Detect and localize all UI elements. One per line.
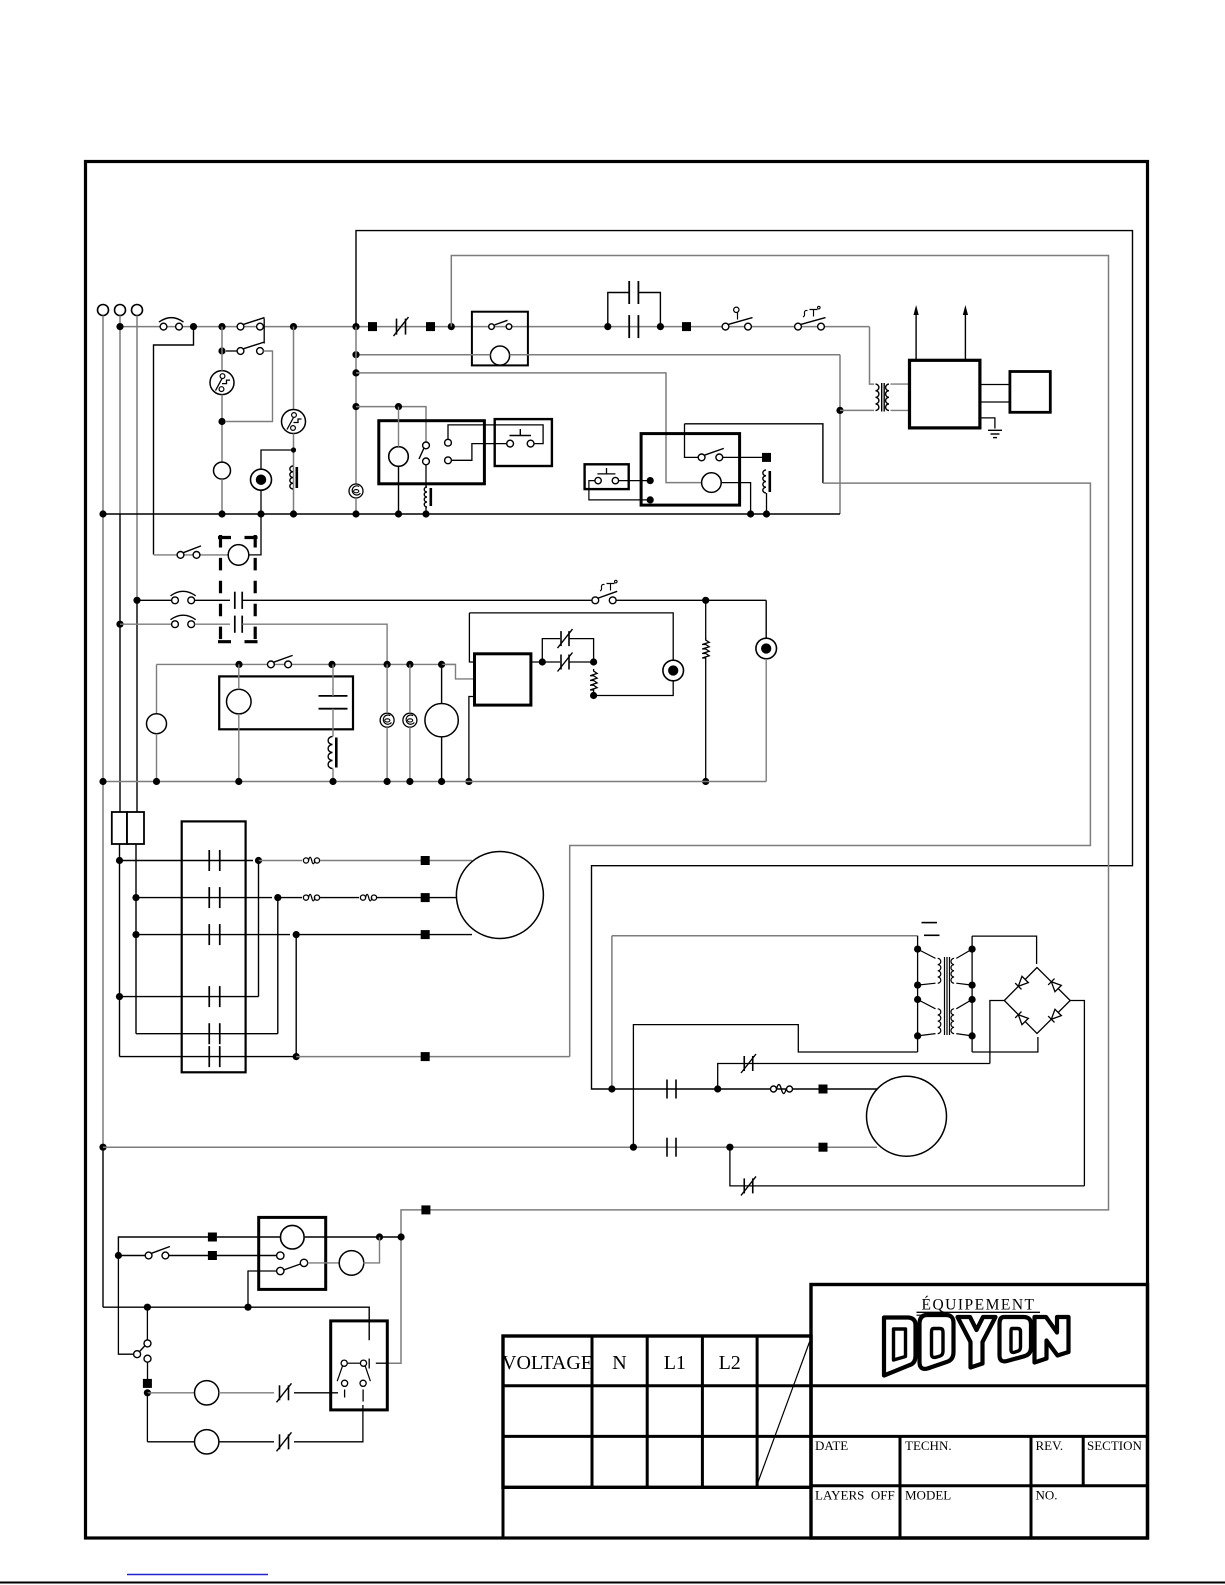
contactor contact D [208,986,210,1007]
wire U1-U2 upper [980,384,1010,386]
wire y423.8 drop to contact [685,424,699,458]
wire T2 top right to bridge [972,936,1037,964]
wire J15 to R3 [705,600,707,639]
transformer T2 right winding lower [956,1000,972,1009]
nc contact NC2 [560,631,562,646]
timer K4 coil [227,689,252,714]
S13 contact 3 [342,1380,348,1386]
node K3 pin a [647,477,654,484]
node J16 [590,658,597,665]
svg-text:L2: L2 [719,1352,741,1374]
capacitor C3 [319,695,348,697]
wire L5 to bus2 [765,659,767,782]
node bus1 x750.6 [747,510,754,517]
node bus2 x387 [384,778,391,785]
wire S5 to loop [226,351,273,422]
nc contact NC1 [560,655,562,670]
nc contact NC3 [743,1056,745,1071]
door contact C-row1 [234,592,236,609]
wire T2 primary feed [612,935,918,937]
wire K3 coil right [721,483,750,514]
pushbutton PB2 box [585,464,629,489]
transformer T1 secondary winding [886,384,889,410]
connector X11 [421,1205,430,1214]
node row2 start [116,621,123,628]
wire bus2 (y781.5) [103,781,766,783]
logo block col REV/SECTION [1082,1436,1085,1485]
wire L4 to bus2 [332,769,334,782]
fan motor M3 [228,545,249,566]
S13 link bar [347,1362,360,1364]
inductor coil L-K3 [763,470,766,493]
wire rowC-F link [295,935,297,1057]
logo block row line 2 [811,1435,1148,1438]
current sensor CT2 [380,713,394,727]
thermal breaker F1 [210,371,234,395]
pushbutton PB1 contacts [507,440,514,447]
capacitor C2 parallel [628,281,630,304]
svg-text:SECTION: SECTION [1087,1438,1143,1453]
wire bridge left out [990,1001,1004,1064]
node bus1 x398 [395,510,402,517]
heater element R1 [290,466,293,489]
node J6 [352,351,359,358]
supply terminal T1 [98,305,109,316]
resistor R2 [590,669,597,692]
node J10 [218,418,225,425]
wire L2 top branch [261,450,294,469]
node M2a mid [714,1085,721,1092]
wire S5 row [226,350,237,352]
title table row line 2 [503,1435,811,1438]
node J9 [218,347,225,354]
wire CT2 vertical [386,664,388,713]
relay K3 contact [698,454,705,461]
node rowA left [116,857,123,864]
rectifier bridge D1-D4 frame [1004,968,1070,1034]
wire L1 vertical lower [119,514,121,812]
node row1 start [133,597,140,604]
nc contact NC6 [279,1434,281,1449]
wire T2 left terminal bar [917,936,919,1052]
relay K6 blade [284,1264,301,1270]
contactor contact F [208,1046,210,1067]
node bus2 x410 [406,778,413,785]
electrode arrow 1 [915,313,917,360]
switch S2-S5 gang link [263,319,265,344]
svg-text:VOLTAGE: VOLTAGE [502,1352,593,1374]
wire coil row y354.7 [356,354,490,356]
selector switch S12 [144,1340,151,1347]
pushbutton PB1 actuator [510,429,532,436]
door contact C-row2 [234,616,236,633]
node J7 [604,323,611,330]
node K3 pin b [647,496,654,503]
wire T2 right terminal bar [971,936,973,1052]
switch S1 door interlock [160,323,167,330]
current sensor CT1 [349,484,363,498]
wire rowC to M1 [296,934,472,936]
pressure switch S3 [722,323,729,330]
node J5 wireB riser [448,323,455,330]
logo block frame [811,1285,1148,1539]
wire top bus drop to T1 primary [870,327,875,385]
wire row1 [137,599,172,601]
wire T2 bottom right run [972,1037,1038,1052]
node top bus at L1 [116,323,123,330]
pilot lamp L1 [214,462,231,479]
wire K2 contact lower [425,465,427,487]
wire T1 secondary bottom [891,409,910,411]
node U3 pin1 [539,658,546,665]
wire line1 out [305,1236,401,1238]
node bus1 x293.5 [290,510,297,517]
svg-text:REV.: REV. [1036,1438,1064,1453]
title table col line 3 [701,1336,704,1487]
node row3 x239 [235,661,242,668]
diode D2 [1048,979,1061,992]
wire U3 bottom-left jog [469,697,475,782]
indicator lamp L4 dark [663,660,684,681]
timer motor M4 [425,704,458,737]
wire K2 coil bottom [398,466,400,514]
node row2b left [115,1252,122,1259]
wire rowC [136,934,290,936]
relay K6 coil [281,1225,305,1249]
wire row3 to box3 [442,664,475,679]
S13 tick below 4 [362,1390,364,1402]
supply terminal T3 [132,305,143,316]
wire C2 branch right [638,293,660,327]
logo block col TECHN/REV [1030,1436,1033,1538]
dashed enclosure (door unit) [218,536,258,539]
relay K3 coil [702,473,722,493]
pilot lamp L6 [339,1251,364,1276]
diode D1 [1015,976,1028,989]
wire row3 left drop [156,664,158,713]
wire T1 primary bottom [840,409,874,411]
wire rowF [120,1056,297,1058]
pushbutton PB2 contacts [595,477,601,483]
wire K2 contact to bus [425,507,427,514]
node bus2 x238.8 [235,778,242,785]
footer link underline [127,1574,268,1576]
wire PB2 right to K3 [619,480,651,482]
wire K2 coil top [398,407,400,447]
transformer T2 left winding upper [918,949,936,958]
node bus1 x426 [422,510,429,517]
node line1 x379.5 [376,1233,383,1240]
wire row2b mid [169,1255,277,1257]
thermostat S4 symbol [803,306,820,317]
wire row5 to S13 [294,1405,363,1442]
wire L1 vertical [119,316,121,515]
node rowC right [293,931,300,938]
wire NC3 row [718,1064,990,1090]
wire K6 b out [248,1271,277,1307]
wire L2 vertical [136,316,138,601]
svg-text:DATE: DATE [815,1438,848,1453]
changeover switch S13 box [331,1321,388,1410]
wire rowD [120,996,259,998]
wire L2 bottom [249,490,261,555]
wire aux a to pushbutton [448,425,543,444]
wire rowB to M1 [377,897,456,899]
wire line1 [118,1237,212,1256]
S13 tick below 3 [344,1390,346,1398]
node rowB right [274,894,281,901]
wire PB2 left loop [589,481,650,500]
S13 contact 1 [341,1360,347,1366]
node y1307 x248 [244,1304,251,1311]
wire row M2a [612,1088,877,1090]
node J11 [291,447,296,452]
wire C2 branch [608,293,629,327]
diode D3 [1015,1012,1028,1025]
wire y423.8 run [685,424,823,483]
node row3 x332 [328,661,335,668]
wire rowA to M1 [320,860,472,862]
switch S5 bypass [237,348,244,355]
node row3 x387 [384,661,391,668]
relay K1 contact [489,324,495,330]
node T2 tap3 [914,996,921,1003]
node T2 tap7 [969,996,976,1003]
wire B feedback loop [388,256,1109,1364]
wire row2b [118,1255,145,1257]
wire CT3 vertical [409,664,411,713]
wire line1 into K6 [217,1236,281,1238]
title table row line 1 [503,1384,811,1387]
transformer T2 left winding lower [918,1000,936,1009]
relay K6 contact a [277,1252,284,1259]
wire CT3 low [409,727,411,781]
node bus2 x333 [329,778,336,785]
wire K4 coil bottom [238,714,240,782]
node bus2 x705.7 [702,778,709,785]
node bus1 x261 [257,510,264,517]
node y1307 x147.4 [144,1304,151,1311]
wire row1 drop to L5 [765,600,767,638]
node J3 [290,323,297,330]
wire NC2 right [569,639,594,662]
node J14 [395,403,402,410]
pilot lamp L3 [147,714,167,734]
thermostat switch S8 [592,597,599,604]
wire NC4 row [730,1147,1085,1186]
node J13 [352,403,359,410]
wire rowF out [296,1056,570,1058]
fuse F5 [771,1086,777,1092]
overload OL1 [303,858,308,863]
wire y612.9 to lamp4 [469,613,673,660]
door switch S9 [172,621,179,628]
door switch S6 [177,552,184,559]
wire T1 secondary top [891,383,910,385]
logo block row line 3 [811,1484,1148,1487]
connector X9 [819,1085,828,1094]
motor M1 [456,852,543,939]
contactor contact B [208,887,210,908]
relay contact C-M2a [666,1080,668,1099]
wire K3 contact to X4 [723,456,762,458]
relay K2 aux contact b [445,457,452,464]
wire F4 out [135,844,137,1034]
EQUIPEMENT underline 2 [917,1314,944,1316]
wire CT2 low [386,727,388,781]
fuse holder F4 [127,812,144,844]
control module U3 box [475,654,531,705]
wire T2 bottom left run [633,1025,917,1148]
current sensor CT3 [403,713,417,727]
thermal breaker F2 [282,410,306,434]
wire top control bus [120,326,870,328]
wire K4 coil top [238,664,240,689]
switch S2 [237,323,244,330]
wire row2 mid [195,623,230,625]
svg-text:L1: L1 [664,1352,686,1374]
contactor contact C [208,924,210,945]
node J8 [657,323,664,330]
logo block col DATE/TECHN [899,1436,902,1538]
wire x222 column [221,327,223,371]
wire jog to M-switch column [154,327,194,555]
wire N bus left vertical [102,316,104,1148]
capacitor C1 [628,315,630,338]
wire X4 to bus [766,493,768,514]
wire rowB mid [320,897,359,899]
transformer T2 core [944,957,946,1035]
relay K1 box [472,312,528,366]
node T2 tap5 [969,946,976,953]
resistor R3 [702,638,709,660]
ignition module U1 box [910,360,980,428]
relay contact C-M2b [666,1138,668,1157]
transformer T1 primary winding [876,384,879,410]
node bus2 x156.5 [153,778,160,785]
wire rowE up link [277,898,279,1034]
wire row4 mid [219,1392,274,1394]
supply terminal T2 [115,305,126,316]
wire NC2 branch up [542,639,560,662]
thermostat switch S4 [795,323,802,330]
node M2b x103 [99,1144,106,1151]
wire rowF left drop [119,997,121,1057]
node line1 x401 [398,1233,405,1240]
wire U3 left-top jog [469,613,474,662]
wire N bus left vertical lower [102,1147,104,1307]
node T2 tap6 [969,982,976,989]
wire row2 [120,623,172,625]
node T2 tap8 [969,1032,976,1039]
pilot lamp L8 [195,1430,219,1454]
wire x356 vertical [355,327,357,484]
connector X10 [819,1143,828,1152]
wire aux b loop [451,444,506,461]
transformer T1 core [881,383,883,412]
wire F3 out [119,844,121,997]
wire y372.9 [356,373,702,483]
node bus2 x468.9 [465,778,472,785]
wire row1 to lamp [616,599,766,601]
node row3 x410 [406,661,413,668]
wire x222 column low [221,479,223,514]
wire y406.6 [356,407,426,442]
connector X5 [421,856,430,865]
wire A feedback loop [356,231,1133,1089]
diode D4 [1048,1009,1061,1022]
door switch S7 [172,597,179,604]
wire T2 feed drop [611,936,613,1089]
wire M4 top [441,664,443,703]
node row4 start [144,1389,151,1396]
node J17 [590,692,597,699]
title table col line 4 [756,1336,759,1487]
svg-text:ÉQUIPEMENT: ÉQUIPEMENT [921,1297,1035,1314]
wire L2 vertical lower [136,600,138,812]
pushbutton PB2 actuator [597,468,615,474]
timer relay K4 box [219,676,353,729]
svg-text:TECHN.: TECHN. [905,1438,952,1453]
relay K6 box [259,1217,326,1289]
wire rowB out [278,897,302,899]
wire row M2b [103,1146,877,1148]
DOYON logo [884,1315,1069,1376]
wire C3 top [332,664,334,696]
wire rowA [120,860,254,862]
wire y1307 run [103,1307,369,1340]
S13 tick right [368,1359,370,1369]
node rowF right [293,1053,300,1060]
wire M-switch row [154,554,229,556]
svg-text:N: N [612,1352,626,1374]
connector X6 [421,893,430,902]
ground symbol [988,429,1002,431]
S13 contact 2 [360,1360,366,1366]
wire x293.5 column [293,327,295,410]
node J15 [702,597,709,604]
wire rowA out [259,860,303,862]
transformer T2 right winding upper [956,949,972,958]
wire row4 to S13 [294,1392,338,1394]
connector X2 [426,322,435,331]
wire R3 to bus2 [705,660,707,782]
wire rowD up link [258,861,260,997]
node bus2 x441.6 [438,778,445,785]
indicator lamp L5 dark [756,638,777,659]
wire row5 drop [146,1393,148,1442]
EQUIPEMENT underline [917,1311,1041,1313]
contactor K5 box [182,821,246,1072]
relay K2 coil [389,447,409,467]
wire row1 mid [195,599,230,601]
node M2b x633 [630,1144,637,1151]
contactor contact A [208,850,210,871]
node T2 tap2 [914,982,921,989]
motor M2 [867,1076,947,1156]
title table left edge low [502,1487,505,1538]
wire row2 right [242,624,387,664]
svg-text:MODEL: MODEL [905,1488,951,1503]
border frame [86,162,1148,1539]
node T2 tap1 [914,946,921,953]
node M2a left [608,1085,615,1092]
footer rule [0,1582,1225,1584]
overload OL2 [303,895,308,900]
connector X8 [421,1052,430,1061]
S13 contact 4 [360,1380,366,1386]
wire row5 mid [219,1441,274,1443]
